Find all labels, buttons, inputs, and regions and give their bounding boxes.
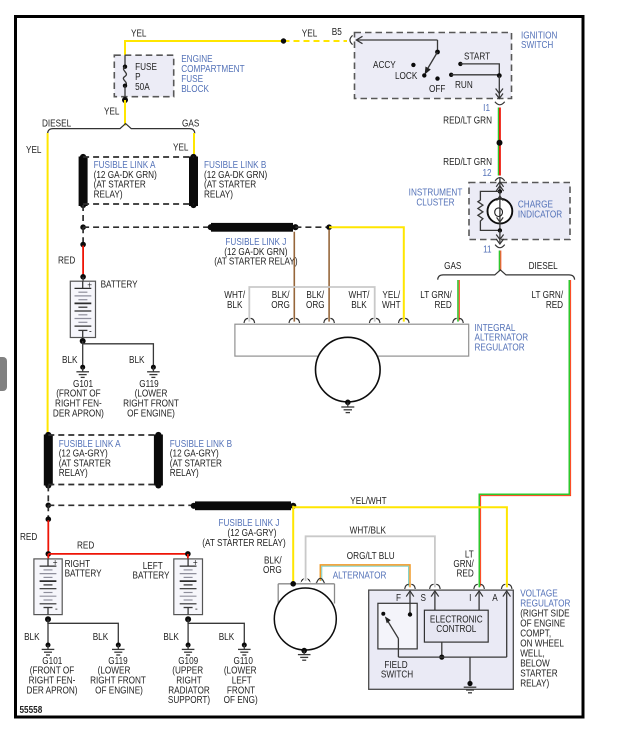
svg-text:WHT/BLK: WHT/BLK: [350, 525, 386, 536]
wire ORG/LT BLU alternator to regulator F: [322, 566, 409, 586]
wire dashed junction down: [47, 505, 49, 518]
svg-text:DER APRON): DER APRON): [53, 408, 104, 419]
wire right battery to G101: [47, 619, 49, 644]
resistor (shunt) in cluster: [478, 191, 500, 230]
node: right battery negative: [45, 616, 51, 622]
left battery: [174, 559, 203, 615]
ground G119 (upper): [147, 365, 160, 378]
cluster exit arrows: [499, 230, 501, 242]
svg-text:I1: I1: [483, 102, 490, 113]
wire RED/LT GRN ignition to instrument cluster: [498, 108, 500, 176]
ignition switch box: [355, 33, 512, 99]
svg-text:BLK: BLK: [62, 354, 77, 365]
svg-text:SWITCH: SWITCH: [381, 669, 413, 680]
svg-text:BLK: BLK: [227, 299, 242, 310]
node: junction at battery feed: [80, 224, 86, 230]
svg-text:DER APRON): DER APRON): [27, 685, 78, 696]
dashed box around lower links A/B: [48, 434, 158, 436]
contact RUN: [449, 73, 453, 77]
svg-text:ORG: ORG: [263, 565, 282, 576]
svg-text:OFF: OFF: [429, 83, 446, 94]
svg-text:50A: 50A: [135, 81, 150, 92]
node: junction dot below fuse block: [122, 97, 128, 103]
svg-text:DIESEL: DIESEL: [42, 118, 71, 129]
connector bumps on regulator: [244, 318, 463, 323]
dashed box around fusible links A/B: [83, 156, 193, 158]
alternator (lower): [278, 583, 334, 585]
node: B+ junction on alternator: [290, 581, 296, 587]
svg-text:I: I: [469, 592, 471, 603]
wire YEL/WHT to regulator: [329, 227, 404, 321]
connector cap at cluster entry: [495, 178, 505, 181]
right battery: [34, 559, 62, 615]
svg-text:BATTERY: BATTERY: [101, 279, 138, 290]
svg-text:YEL: YEL: [26, 144, 41, 155]
svg-text:ORG: ORG: [271, 299, 290, 310]
svg-text:ACCY: ACCY: [373, 59, 396, 70]
svg-text:A: A: [492, 592, 497, 603]
svg-text:(AT STARTER RELAY): (AT STARTER RELAY): [214, 256, 297, 267]
svg-text:CLUSTER: CLUSTER: [416, 197, 455, 208]
rail in voltage regulator: [398, 656, 506, 658]
connector bumps on voltage regulator: [405, 584, 512, 589]
svg-text:ORG: ORG: [306, 299, 325, 310]
node: left battery negative: [185, 616, 191, 622]
svg-text:12: 12: [482, 167, 491, 178]
wire LT GRN/RED diesel branch (right side long run to voltage regulator): [479, 280, 569, 587]
switch arm toward LOCK: [428, 52, 438, 68]
wire YEL gas branch: [193, 133, 195, 157]
node: cluster bottom junction: [498, 228, 502, 232]
svg-text:YEL: YEL: [104, 106, 119, 117]
fusible link A (12 GA-DK GRN): [79, 157, 88, 207]
svg-text:YEL/WHT: YEL/WHT: [350, 495, 387, 506]
svg-text:F: F: [396, 592, 401, 603]
ground G119 (lower): [112, 643, 125, 656]
svg-text:RELAY): RELAY): [170, 468, 199, 479]
split bracket DIESEL/GAS (top): [48, 124, 195, 134]
contact START: [458, 62, 462, 66]
svg-text:ALTERNATOR: ALTERNATOR: [333, 570, 387, 581]
svg-text:B5: B5: [332, 26, 342, 37]
svg-text:BLK: BLK: [163, 631, 178, 642]
wire left battery to G110: [188, 622, 244, 645]
electronic control box: [424, 610, 488, 642]
connector cup 11: [495, 245, 505, 248]
wire dashed junction to fusible link J: [83, 226, 211, 228]
svg-text:SUPPORT): SUPPORT): [168, 694, 210, 705]
svg-text:ORG/LT BLU: ORG/LT BLU: [347, 551, 395, 562]
svg-text:BATTERY: BATTERY: [65, 568, 102, 579]
wire electronic control to rail: [441, 642, 443, 657]
wire dashed junction down to battery: [82, 227, 84, 243]
field switch box: [378, 603, 417, 649]
instrument cluster box: [469, 183, 570, 240]
wire START/RUN to output: [460, 64, 499, 76]
wire right battery to G119: [48, 622, 118, 645]
svg-text:BLK: BLK: [129, 354, 144, 365]
ground G101 (lower): [42, 643, 55, 656]
node: junction dot on YEL wire: [281, 38, 286, 43]
wire ignition feed with left arrow: [357, 39, 438, 41]
svg-text:(AT STARTER RELAY): (AT STARTER RELAY): [202, 537, 285, 548]
svg-text:REGULATOR: REGULATOR: [475, 342, 526, 353]
connector cup I1: [495, 102, 505, 105]
wire RED down to right battery: [47, 520, 49, 554]
fusible link A (12 GA-GRY): [44, 435, 53, 486]
svg-text:-: -: [195, 603, 198, 614]
svg-text:CONTROL: CONTROL: [436, 624, 476, 635]
svg-text:YEL: YEL: [302, 28, 317, 39]
ground G101 (upper): [76, 365, 89, 378]
svg-text:YEL: YEL: [131, 28, 146, 39]
connector cup at ignition switch B5 entry: [350, 35, 353, 44]
node: junction dot: [326, 224, 332, 230]
battery (upper): [70, 281, 95, 337]
svg-text:SWITCH: SWITCH: [521, 40, 553, 51]
svg-text:START: START: [464, 51, 491, 62]
fuse P 50A: [124, 55, 126, 66]
svg-text:OF ENGINE): OF ENGINE): [95, 685, 143, 696]
svg-text:-: -: [55, 603, 58, 614]
contact OFF: [435, 76, 439, 80]
svg-text:WHT: WHT: [382, 299, 401, 310]
wire RED between batteries: [48, 553, 188, 555]
wire YEL diesel branch (long left run): [47, 133, 49, 435]
svg-text:BLK: BLK: [24, 631, 39, 642]
ground below alternator: [341, 400, 354, 413]
svg-text:RED: RED: [77, 540, 95, 551]
wire YEL fuse to split: [124, 100, 126, 126]
wire BLK/ORG from link J: [293, 232, 295, 322]
svg-text:GAS: GAS: [444, 260, 461, 271]
svg-text:BLK: BLK: [219, 631, 234, 642]
svg-text:BLOCK: BLOCK: [181, 83, 209, 94]
node: switch pivot: [435, 50, 440, 55]
ground G109: [182, 643, 195, 656]
svg-text:RELAY): RELAY): [520, 678, 549, 689]
voltage regulator box: [369, 590, 514, 689]
ground below lower alternator: [298, 648, 311, 660]
wire LT GRN/RED gas branch to regulator: [457, 280, 459, 322]
alternator (upper) circle: [316, 337, 381, 402]
svg-text:RED: RED: [58, 255, 76, 266]
wire ignition output with down arrows: [498, 76, 500, 98]
fusible link J (12 GA-GRY): [195, 501, 291, 510]
svg-text:RED: RED: [20, 531, 38, 542]
svg-text:YEL: YEL: [173, 142, 188, 153]
wire battery to G119: [83, 344, 154, 367]
contact LOCK: [422, 73, 426, 77]
wire field switch to rail: [397, 639, 399, 658]
wire left battery to G109: [187, 619, 189, 644]
svg-text:55558: 55558: [20, 704, 43, 715]
integral alternator regulator box: [235, 324, 469, 356]
fusible link J (12 GA-DK GRN): [211, 223, 293, 232]
wire BLK/ORG lower link J down to alternator: [292, 506, 294, 584]
svg-text:RUN: RUN: [455, 79, 473, 90]
wire RED to battery: [82, 246, 84, 276]
node: cluster top junction: [498, 189, 502, 193]
left edge gray tab: [0, 357, 7, 391]
ground G110: [238, 643, 251, 656]
svg-text:BLK: BLK: [351, 299, 366, 310]
wire YEL top feed from fuse block to ignition switch: [125, 41, 284, 56]
svg-text:GAS: GAS: [182, 118, 199, 129]
wire battery to G101: [82, 341, 84, 366]
wire dashed lower link A to junction: [47, 485, 49, 505]
wire WHT/BLK alternator to regulator S: [306, 536, 435, 587]
svg-text:OF ENGINE): OF ENGINE): [127, 408, 175, 419]
svg-text:RELAY): RELAY): [59, 468, 88, 479]
svg-text:OF ENG): OF ENG): [224, 694, 258, 705]
fusible link B (12 GA-GRY): [154, 435, 163, 486]
wire YEL/WHT lower link J to voltage regulator A: [293, 507, 507, 587]
split bracket GAS/DIESEL (right): [438, 270, 575, 280]
charge indicator lamp circle: [488, 199, 513, 224]
wire dashed link J to yellow junction: [295, 226, 329, 228]
wire BLK/ORG from junction: [328, 230, 330, 322]
svg-text:RELAY): RELAY): [204, 189, 233, 200]
svg-text:RED: RED: [546, 299, 564, 310]
node: junction dot on RED/LT GRN: [497, 140, 503, 146]
svg-text:RELAY): RELAY): [94, 189, 123, 200]
svg-text:+: +: [53, 558, 58, 569]
svg-text:S: S: [420, 592, 425, 603]
contact ACCY: [411, 63, 415, 67]
wire dashed junction to lower link J: [48, 504, 194, 506]
svg-text:BATTERY: BATTERY: [132, 570, 169, 581]
svg-text:+: +: [193, 558, 198, 569]
svg-text:11: 11: [483, 244, 492, 255]
svg-text:RED: RED: [435, 299, 453, 310]
svg-text:-: -: [89, 326, 92, 337]
svg-text:RED/LT GRN: RED/LT GRN: [443, 156, 492, 167]
wire dashed link A to junction: [82, 205, 84, 227]
fusible link B (12 GA-DK GRN): [189, 157, 198, 207]
node: battery negative junction: [80, 338, 86, 344]
wire WHT/BLK jumper over regulator: [249, 287, 374, 322]
engine compartment fuse block box: [114, 55, 173, 96]
ground in voltage regulator: [469, 657, 471, 683]
wire LT GRN/RED cluster to split: [499, 251, 501, 272]
svg-text:BLK: BLK: [93, 631, 108, 642]
cluster entry arrow: [499, 178, 501, 192]
svg-text:RED: RED: [457, 568, 475, 579]
svg-text:INDICATOR: INDICATOR: [518, 209, 563, 220]
svg-text:RED/LT GRN: RED/LT GRN: [443, 115, 492, 126]
svg-text:DIESEL: DIESEL: [529, 260, 558, 271]
svg-text:LOCK: LOCK: [395, 71, 417, 82]
